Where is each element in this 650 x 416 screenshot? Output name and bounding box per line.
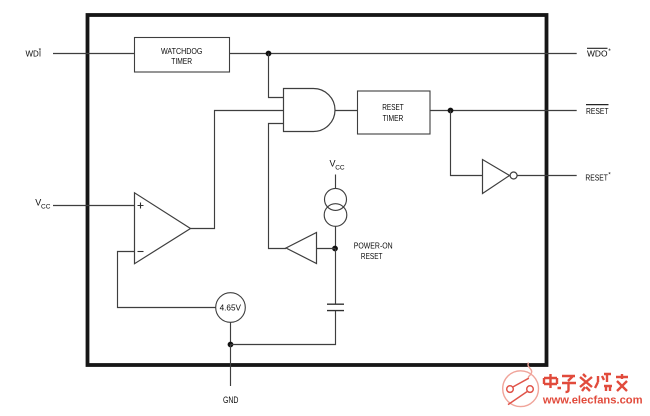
wire POR node down to capacitor top xyxy=(335,249,337,305)
pin label WDI xyxy=(26,48,42,59)
AND gate U2 xyxy=(284,89,336,132)
wire comparator minus feedback to 4.65V reference xyxy=(118,252,216,308)
IC boundary box xyxy=(88,15,547,365)
svg-text:4.65V: 4.65V xyxy=(220,304,242,313)
wire reference to ground node xyxy=(230,322,232,344)
wire VCC input to comparator + xyxy=(53,205,135,207)
buffer U6 (points left) xyxy=(286,233,317,264)
wire RESET node down to inverter input xyxy=(451,111,483,176)
op-amp comparator U5 xyxy=(135,193,191,264)
svg-text:*: * xyxy=(608,172,611,179)
voltage reference 4.65V xyxy=(216,293,246,323)
svg-text:www.elecfans.com: www.elecfans.com xyxy=(542,394,643,406)
svg-text:CC: CC xyxy=(41,203,51,210)
wire WDI input xyxy=(53,53,135,55)
wire POR node to buffer input xyxy=(317,248,336,250)
wire ground node to capacitor xyxy=(231,311,336,345)
svg-text:*: * xyxy=(608,48,611,55)
svg-text:*: * xyxy=(39,48,42,55)
svg-text:TIMER: TIMER xyxy=(171,57,192,66)
watermark logo circle xyxy=(503,363,539,407)
node junction WDO xyxy=(266,51,272,57)
wire reset timer output to RESET pin xyxy=(430,110,577,112)
pin label VCC xyxy=(35,198,50,211)
wire comparator output to AND gate middle input xyxy=(191,111,284,229)
svg-text:WDO: WDO xyxy=(587,50,608,59)
inverter bubble xyxy=(510,172,517,179)
wire current source to POR node xyxy=(335,226,337,248)
node POR junction xyxy=(332,246,338,252)
svg-text:POWER-ON: POWER-ON xyxy=(354,242,393,251)
label POWER-ON RESET xyxy=(354,242,393,262)
pin label RESET* xyxy=(585,172,611,183)
capacitor C1 xyxy=(327,304,344,310)
watchdog timer box U1 xyxy=(135,38,230,73)
wire GND pin xyxy=(230,345,232,387)
wire WDO node to AND gate top input xyxy=(269,54,284,98)
svg-text:RESET: RESET xyxy=(586,106,609,116)
wire watchdog output to WDO pin xyxy=(230,53,577,55)
svg-text:RESET: RESET xyxy=(361,252,383,261)
wire AND gate output to reset timer xyxy=(335,110,358,112)
current source I1 xyxy=(324,188,347,226)
net label VCC (POR) xyxy=(330,159,345,172)
reset timer box U3 xyxy=(358,91,431,134)
svg-text:RESET: RESET xyxy=(585,173,608,183)
wire inverter output to RESET* pin xyxy=(517,175,577,177)
wire buffer output to AND gate bottom input xyxy=(269,124,287,249)
svg-text:RESET: RESET xyxy=(382,102,404,112)
svg-text:CC: CC xyxy=(335,164,345,171)
watermark text 电子发烧友 (simplified strokes) xyxy=(544,374,628,392)
wire VCC stub to current source xyxy=(335,175,337,189)
svg-text:GND: GND xyxy=(223,395,239,405)
node ground junction xyxy=(228,342,234,348)
node junction RESET xyxy=(448,108,454,114)
inverter U4 xyxy=(483,160,510,194)
pin label WDO (overlined) xyxy=(587,48,611,59)
svg-text:TIMER: TIMER xyxy=(383,113,404,123)
svg-text:WATCHDOG: WATCHDOG xyxy=(161,47,203,56)
pin label RESET (overlined) xyxy=(586,105,609,116)
